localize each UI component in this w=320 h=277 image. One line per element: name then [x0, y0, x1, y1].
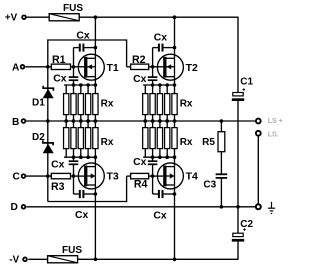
- transistor T3: [78, 163, 119, 189]
- wire D rail: [26, 206, 255, 208]
- junction +V/T1 drain: [94, 15, 98, 19]
- svg-text:D2: D2: [32, 132, 45, 143]
- junction R2/Cx: [151, 65, 155, 69]
- terminal D: [11, 202, 26, 213]
- svg-text:Rx: Rx: [180, 137, 193, 148]
- junction A/loop: [46, 65, 50, 69]
- svg-text:Cx: Cx: [133, 157, 147, 168]
- resistor R3: [51, 173, 70, 193]
- svg-text:R2: R2: [132, 54, 146, 66]
- wire C1 to ground rail: [237, 101, 239, 207]
- svg-text:+V: +V: [5, 13, 18, 24]
- wire R5 to C3: [220, 152, 222, 175]
- wire T3 source: [94, 157, 96, 166]
- wire loop to R4: [127, 175, 131, 177]
- svg-text:Rx: Rx: [180, 99, 193, 110]
- svg-text:A: A: [12, 63, 20, 74]
- transistor T2: [157, 54, 198, 80]
- wire ground rail to C2: [237, 207, 239, 233]
- wire R1 to T1 gate: [71, 66, 85, 68]
- svg-text:R5: R5: [202, 137, 215, 148]
- junction R4/Cx: [151, 174, 155, 178]
- capacitor C2: [232, 219, 254, 241]
- svg-text:Cx: Cx: [133, 74, 147, 85]
- svg-text:Rx: Rx: [101, 99, 114, 110]
- wire T1 drain: [94, 17, 96, 58]
- svg-text:R3: R3: [51, 181, 65, 193]
- capacitor C3: [203, 174, 227, 190]
- junction C3/ground rail: [220, 205, 224, 209]
- terminal A: [12, 63, 24, 74]
- svg-text:Cx: Cx: [51, 159, 65, 170]
- resistor bank Rx (upper right): [143, 83, 193, 123]
- svg-text:Cx: Cx: [53, 74, 67, 85]
- svg-text:C1: C1: [240, 76, 253, 87]
- wire R3 to T3 gate: [71, 175, 85, 177]
- terminal LS+: [256, 118, 283, 125]
- transistor T4: [157, 163, 198, 189]
- svg-text:C2: C2: [240, 219, 253, 230]
- wire C3 to ground rail: [220, 178, 222, 207]
- capacitor Cx (T3 gate-source): [51, 157, 78, 176]
- wire T1 source: [94, 77, 96, 85]
- wire A input: [25, 66, 51, 68]
- transistor T1: [78, 54, 119, 80]
- wire bottom loop: [48, 176, 127, 202]
- fuse FUS bottom: [48, 245, 83, 263]
- capacitor Cx (T4 gate-drain): [153, 176, 177, 221]
- junction +V/T2 drain: [173, 15, 177, 19]
- wire +V to C1: [237, 17, 239, 93]
- wire -V to fuse: [28, 258, 47, 260]
- junction R3/Cx: [72, 174, 76, 178]
- svg-text:T1: T1: [107, 62, 119, 74]
- svg-text:Cx: Cx: [76, 30, 90, 41]
- svg-text:LS +: LS +: [268, 118, 283, 125]
- wire +V rail: [79, 16, 238, 18]
- svg-text:LS.: LS.: [268, 132, 279, 139]
- junction -V/T3 drain: [94, 258, 98, 262]
- svg-text:C: C: [12, 172, 20, 183]
- terminal B: [12, 117, 25, 128]
- svg-text:D1: D1: [32, 98, 45, 109]
- wire T4 drain: [174, 185, 176, 259]
- wire R2 to T2 gate: [149, 66, 164, 68]
- terminal +V: [5, 13, 26, 24]
- svg-text:FUS: FUS: [62, 245, 82, 256]
- junction C1-C2/ground rail: [236, 205, 240, 209]
- capacitor Cx (T2 gate-source): [133, 67, 157, 85]
- svg-text:C3: C3: [203, 179, 216, 190]
- diode D1 (zener): [32, 86, 54, 109]
- svg-text:FUS: FUS: [63, 3, 83, 14]
- resistor R1: [51, 54, 70, 70]
- svg-text:R1: R1: [52, 54, 66, 66]
- wire -V rail: [78, 258, 238, 260]
- wire T2 drain: [174, 17, 176, 58]
- capacitor Cx (T1 gate-drain): [74, 30, 98, 66]
- wire loop to R2: [127, 66, 131, 68]
- wire LS- to ground node: [257, 136, 259, 204]
- svg-text:Cx: Cx: [153, 210, 167, 221]
- svg-text:Cx: Cx: [154, 33, 168, 44]
- wire B rail: [25, 120, 255, 122]
- terminal C: [12, 172, 25, 183]
- resistor bank Rx (lower right): [143, 119, 193, 159]
- diode D2 (zener): [32, 132, 54, 153]
- capacitor Cx (T2 gate-drain): [153, 33, 177, 67]
- resistor bank Rx (lower left): [64, 119, 114, 159]
- svg-text:T4: T4: [186, 171, 198, 183]
- capacitor Cx (T4 gate-source): [133, 157, 157, 176]
- resistor bank Rx (upper left): [64, 83, 114, 123]
- junction B/R5: [220, 119, 224, 123]
- svg-text:Rx: Rx: [101, 137, 114, 148]
- wire input vertical: [47, 67, 49, 202]
- wire T4 source: [174, 157, 176, 166]
- svg-text:T2: T2: [186, 62, 198, 74]
- fuse FUS top: [49, 3, 83, 21]
- ground symbol: [268, 202, 275, 214]
- terminal LS-: [256, 131, 279, 139]
- svg-text:Cx: Cx: [75, 210, 89, 221]
- junction B/input vertical: [46, 119, 50, 123]
- svg-text:D: D: [11, 202, 18, 213]
- capacitor Cx (T1 gate-source): [53, 67, 78, 85]
- terminal -V: [9, 254, 26, 265]
- resistor R2: [131, 54, 149, 70]
- wire R4 to T4 gate: [149, 175, 164, 177]
- junction R1/Cx: [72, 65, 76, 69]
- capacitor C1: [232, 76, 254, 101]
- resistor R5: [202, 121, 225, 152]
- node ground ring: [256, 204, 261, 209]
- junction C/input vertical: [46, 174, 50, 178]
- junction -V/T4 drain: [173, 258, 177, 262]
- wire +V to fuse: [26, 16, 49, 18]
- wire T3 drain: [94, 185, 96, 259]
- capacitor Cx (T3 gate-drain): [74, 176, 98, 221]
- wire top loop: [48, 39, 127, 66]
- svg-text:-V: -V: [9, 254, 19, 265]
- resistor R4: [131, 173, 149, 190]
- wire T2 source: [174, 77, 176, 85]
- wire C input: [25, 175, 51, 177]
- svg-text:B: B: [12, 117, 19, 128]
- svg-text:T3: T3: [107, 171, 119, 183]
- wire C2 to -V rail: [237, 242, 239, 260]
- svg-text:R4: R4: [134, 178, 148, 190]
